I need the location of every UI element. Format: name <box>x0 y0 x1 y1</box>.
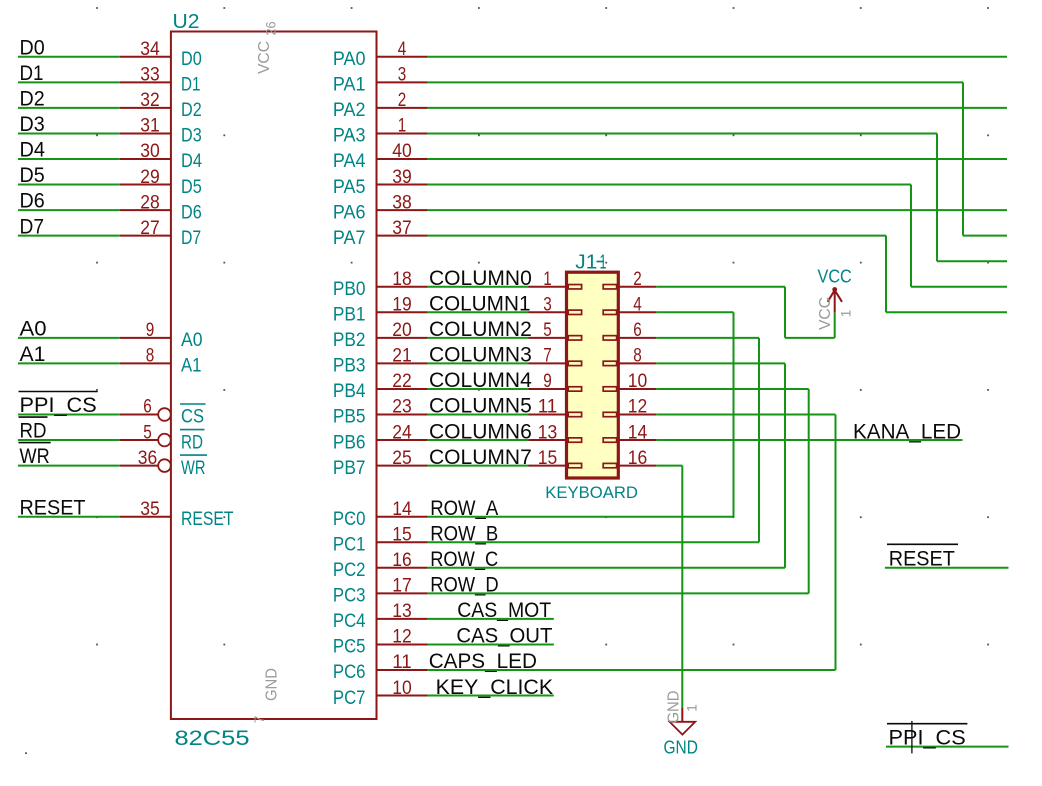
svg-text:11: 11 <box>392 651 412 673</box>
svg-text:21: 21 <box>392 345 412 367</box>
svg-text:10: 10 <box>628 370 648 392</box>
svg-text:A0: A0 <box>20 316 47 340</box>
svg-text:4: 4 <box>633 294 642 316</box>
svg-text:WR: WR <box>20 444 50 468</box>
svg-text:KEYBOARD: KEYBOARD <box>545 483 638 502</box>
svg-text:D2: D2 <box>181 100 202 121</box>
svg-text:PC5: PC5 <box>333 637 366 658</box>
svg-text:1: 1 <box>398 115 407 137</box>
svg-text:8: 8 <box>633 345 642 367</box>
svg-text:GND: GND <box>666 691 683 724</box>
svg-text:82C55: 82C55 <box>175 726 250 750</box>
svg-text:12: 12 <box>628 396 648 418</box>
svg-text:17: 17 <box>392 575 412 597</box>
svg-text:32: 32 <box>140 89 160 111</box>
svg-text:16: 16 <box>392 549 412 571</box>
svg-text:18: 18 <box>392 268 412 290</box>
svg-text:2: 2 <box>633 268 642 290</box>
svg-text:RD: RD <box>181 432 203 453</box>
svg-text:26: 26 <box>264 22 279 36</box>
svg-text:D7: D7 <box>181 228 201 249</box>
svg-text:15: 15 <box>538 447 558 469</box>
svg-text:PB3: PB3 <box>333 356 366 377</box>
svg-text:4: 4 <box>398 38 407 60</box>
svg-text:RESET: RESET <box>20 495 86 519</box>
svg-text:22: 22 <box>392 370 412 392</box>
svg-text:3: 3 <box>543 294 552 316</box>
svg-text:2: 2 <box>398 89 407 111</box>
svg-text:U2: U2 <box>173 11 200 33</box>
svg-text:D4: D4 <box>20 138 46 162</box>
svg-text:PC6: PC6 <box>333 662 366 683</box>
svg-text:RD: RD <box>20 419 47 443</box>
svg-text:7: 7 <box>252 716 267 724</box>
svg-text:14: 14 <box>628 421 648 443</box>
svg-text:35: 35 <box>140 498 160 520</box>
svg-text:PB7: PB7 <box>333 458 366 479</box>
svg-text:29: 29 <box>140 166 160 188</box>
svg-text:PC1: PC1 <box>333 534 366 555</box>
svg-text:PB6: PB6 <box>333 432 366 453</box>
svg-text:PB0: PB0 <box>333 279 366 300</box>
svg-text:PA7: PA7 <box>333 228 366 249</box>
svg-text:PA6: PA6 <box>333 202 366 223</box>
svg-text:PC3: PC3 <box>333 586 366 607</box>
svg-text:36: 36 <box>138 447 158 469</box>
svg-text:PPI_CS: PPI_CS <box>889 725 966 749</box>
svg-text:PC2: PC2 <box>333 560 366 581</box>
svg-text:D3: D3 <box>181 126 202 147</box>
svg-text:25: 25 <box>392 447 412 469</box>
svg-text:D0: D0 <box>20 35 45 59</box>
svg-text:D5: D5 <box>20 163 45 187</box>
svg-text:A1: A1 <box>20 342 46 366</box>
svg-text:PA4: PA4 <box>333 151 366 172</box>
svg-text:24: 24 <box>392 421 412 443</box>
svg-text:11: 11 <box>538 396 558 418</box>
svg-text:D1: D1 <box>181 75 201 96</box>
svg-text:D6: D6 <box>20 189 45 213</box>
svg-text:1: 1 <box>685 704 700 712</box>
svg-text:12: 12 <box>392 626 412 648</box>
svg-text:PB5: PB5 <box>333 407 366 428</box>
svg-text:20: 20 <box>392 319 412 341</box>
svg-text:D3: D3 <box>20 112 45 136</box>
svg-text:13: 13 <box>538 421 558 443</box>
svg-text:J1: J1 <box>575 251 597 274</box>
svg-text:PB1: PB1 <box>333 305 366 326</box>
svg-text:D6: D6 <box>181 202 202 223</box>
svg-text:RESET: RESET <box>889 546 955 570</box>
svg-text:9: 9 <box>543 370 552 392</box>
svg-text:7: 7 <box>543 345 552 367</box>
svg-text:8: 8 <box>146 345 155 367</box>
svg-text:40: 40 <box>392 140 412 162</box>
svg-text:30: 30 <box>140 140 160 162</box>
svg-text:KANA_LED: KANA_LED <box>853 420 961 444</box>
svg-text:VCC: VCC <box>256 41 273 74</box>
svg-text:GND: GND <box>664 738 698 758</box>
svg-text:19: 19 <box>392 294 412 316</box>
svg-text:A0: A0 <box>181 330 203 351</box>
svg-text:39: 39 <box>392 166 412 188</box>
svg-text:3: 3 <box>398 64 407 86</box>
svg-text:33: 33 <box>140 64 160 86</box>
svg-text:PB2: PB2 <box>333 330 366 351</box>
svg-text:D1: D1 <box>20 61 44 85</box>
svg-text:14: 14 <box>392 498 412 520</box>
svg-text:PA0: PA0 <box>333 49 366 70</box>
svg-text:VCC: VCC <box>817 297 834 330</box>
svg-text:D0: D0 <box>181 49 202 70</box>
svg-text:PA3: PA3 <box>333 126 366 147</box>
svg-text:PB4: PB4 <box>333 381 366 402</box>
svg-text:A1: A1 <box>181 356 202 377</box>
svg-text:D5: D5 <box>181 177 202 198</box>
svg-text:RESET: RESET <box>181 509 234 530</box>
svg-text:15: 15 <box>392 523 412 545</box>
svg-text:PA2: PA2 <box>333 100 366 121</box>
svg-text:5: 5 <box>543 319 552 341</box>
svg-text:PA5: PA5 <box>333 177 366 198</box>
svg-text:9: 9 <box>146 319 155 341</box>
svg-text:13: 13 <box>392 600 412 622</box>
svg-text:31: 31 <box>140 115 160 137</box>
svg-text:23: 23 <box>392 396 412 418</box>
svg-text:D4: D4 <box>181 151 202 172</box>
svg-text:PA1: PA1 <box>333 75 366 96</box>
svg-text:28: 28 <box>140 191 160 213</box>
svg-text:37: 37 <box>392 217 412 239</box>
svg-text:6: 6 <box>143 396 152 418</box>
svg-text:10: 10 <box>392 677 412 699</box>
svg-text:38: 38 <box>392 191 412 213</box>
svg-text:CS: CS <box>181 407 204 428</box>
svg-text:1: 1 <box>839 310 854 318</box>
svg-text:34: 34 <box>140 38 160 60</box>
svg-text:PC0: PC0 <box>333 509 366 530</box>
svg-text:D7: D7 <box>20 214 45 238</box>
svg-text:WR: WR <box>181 458 206 479</box>
svg-text:GND: GND <box>264 668 281 701</box>
svg-text:5: 5 <box>143 421 152 443</box>
svg-text:PPI_CS: PPI_CS <box>20 393 97 417</box>
svg-text:6: 6 <box>633 319 642 341</box>
svg-text:1: 1 <box>543 268 552 290</box>
svg-text:16: 16 <box>628 447 648 469</box>
svg-text:D2: D2 <box>20 87 45 111</box>
svg-text:PC7: PC7 <box>333 688 366 709</box>
svg-text:PC4: PC4 <box>333 611 366 632</box>
svg-text:27: 27 <box>140 217 160 239</box>
svg-text:VCC: VCC <box>818 267 852 287</box>
